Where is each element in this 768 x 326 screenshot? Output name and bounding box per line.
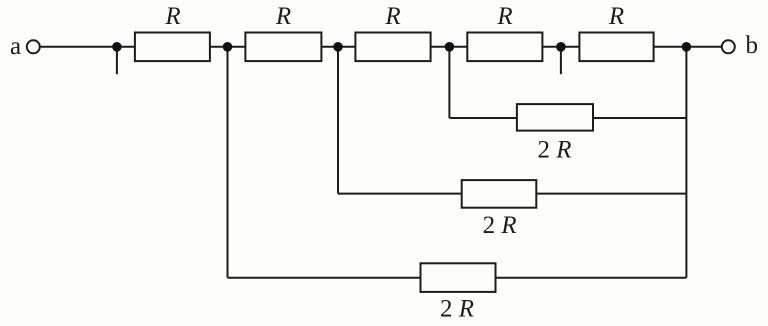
stub wire below node J5 <box>560 47 562 74</box>
resistor R (third) <box>355 33 430 62</box>
svg-text:R: R <box>384 3 400 30</box>
wire J2 to R2 <box>228 46 246 48</box>
branch 3 right wire <box>496 277 687 279</box>
vertical wire J3 down to branch 2 <box>337 47 339 194</box>
svg-text:R: R <box>164 3 180 30</box>
branch 1 left wire <box>449 117 517 119</box>
branch 2 left wire <box>338 193 462 195</box>
node J3 <box>333 42 343 52</box>
wire J6 to terminal b <box>686 46 722 48</box>
node J5 <box>556 42 566 52</box>
wire J4 to R4 <box>449 46 467 48</box>
svg-text:R: R <box>608 3 624 30</box>
wire R1 to J2 <box>210 46 228 48</box>
resistor R (fifth) <box>579 33 653 62</box>
svg-text:2 R: 2 R <box>440 296 474 323</box>
wire J5 to R5 <box>561 46 580 48</box>
stub wire below node J1 <box>116 47 118 74</box>
terminal a <box>27 40 40 53</box>
svg-text:R: R <box>496 3 512 30</box>
svg-text:2 R: 2 R <box>537 136 571 163</box>
node J4 <box>445 42 455 52</box>
resistor 2R (branch 2) <box>462 180 537 208</box>
terminal b <box>722 40 735 53</box>
resistor R (first) <box>135 33 210 62</box>
svg-text:b: b <box>746 32 759 59</box>
wire R4 to J5 <box>542 46 561 48</box>
node J1 <box>112 42 122 52</box>
resistor R (fourth) <box>467 33 542 62</box>
wire a to node J1 <box>41 46 117 48</box>
right vertical bus wire <box>685 47 687 278</box>
vertical wire J4 down to branch 1 <box>448 47 450 118</box>
wire J1 to R1 <box>117 46 135 48</box>
branch 3 left wire <box>228 277 421 279</box>
resistor 2R (branch 3) <box>421 263 496 292</box>
vertical wire J2 down to branch 3 <box>227 47 229 278</box>
wire R5 to J6 <box>654 46 687 48</box>
svg-text:R: R <box>275 3 291 30</box>
branch 2 right wire <box>536 193 686 195</box>
node J2 <box>223 42 233 52</box>
resistor R (second) <box>245 33 321 62</box>
branch 1 right wire <box>593 117 686 119</box>
wire J3 to R3 <box>338 46 355 48</box>
wire R3 to J4 <box>431 46 450 48</box>
svg-text:a: a <box>10 33 21 60</box>
node J6 <box>682 42 692 52</box>
svg-text:2 R: 2 R <box>483 212 517 239</box>
resistor 2R (branch 1) <box>517 104 593 131</box>
wire R2 to J3 <box>321 46 338 48</box>
